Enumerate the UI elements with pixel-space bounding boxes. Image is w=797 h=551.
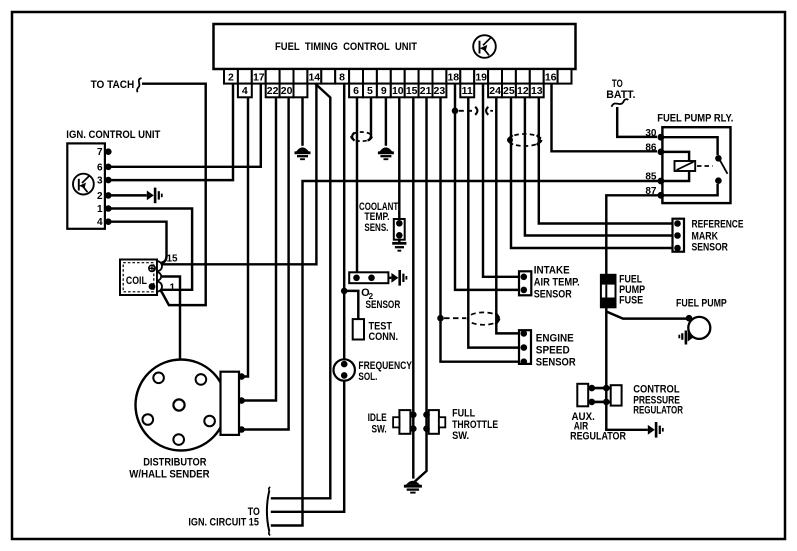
svg-text:7: 7 — [97, 147, 103, 158]
svg-text:W/HALL SENDER: W/HALL SENDER — [129, 469, 209, 481]
svg-text:22: 22 — [267, 85, 279, 97]
svg-text:SPEED: SPEED — [536, 345, 570, 357]
svg-text:25: 25 — [503, 85, 515, 97]
svg-text:DISTRIBUTOR: DISTRIBUTOR — [143, 457, 206, 469]
svg-text:THROTTLE: THROTTLE — [452, 419, 498, 431]
svg-text:FUSE: FUSE — [619, 295, 643, 307]
svg-text:3: 3 — [97, 176, 103, 187]
svg-text:23: 23 — [434, 85, 446, 97]
svg-text:21: 21 — [420, 85, 432, 97]
svg-text:30: 30 — [645, 128, 657, 139]
svg-text:85: 85 — [645, 172, 657, 183]
svg-text:4: 4 — [97, 217, 103, 228]
svg-text:BATT.: BATT. — [606, 89, 635, 101]
svg-text:REGULATOR: REGULATOR — [570, 431, 626, 443]
svg-text:1: 1 — [170, 283, 176, 294]
svg-text:6: 6 — [97, 162, 103, 173]
svg-text:87: 87 — [645, 186, 657, 197]
svg-text:20: 20 — [281, 85, 293, 97]
svg-text:15: 15 — [406, 85, 418, 97]
svg-text:AIR TEMP.: AIR TEMP. — [534, 277, 580, 289]
svg-text:REFERENCE: REFERENCE — [692, 219, 744, 231]
svg-text:SENSOR: SENSOR — [692, 242, 728, 254]
svg-text:FUEL PUMP RLY.: FUEL PUMP RLY. — [657, 113, 733, 125]
svg-text:1: 1 — [97, 204, 103, 215]
svg-text:SENSOR: SENSOR — [536, 357, 576, 369]
svg-text:INTAKE: INTAKE — [534, 265, 570, 277]
svg-text:IGN. CONTROL UNIT: IGN. CONTROL UNIT — [66, 129, 160, 141]
svg-text:2: 2 — [228, 71, 234, 83]
svg-text:COIL: COIL — [126, 275, 147, 287]
svg-text:2: 2 — [97, 191, 103, 202]
svg-text:11: 11 — [462, 85, 473, 97]
svg-text:12: 12 — [517, 85, 529, 97]
svg-text:REGULATOR: REGULATOR — [633, 405, 683, 417]
svg-text:SOL.: SOL. — [358, 371, 377, 383]
svg-text:SW.: SW. — [452, 430, 469, 442]
svg-text:18: 18 — [447, 71, 459, 83]
svg-text:FUEL PUMP: FUEL PUMP — [676, 298, 727, 310]
svg-text:4: 4 — [242, 85, 248, 97]
svg-text:24: 24 — [489, 85, 501, 97]
svg-text:SENS.: SENS. — [364, 222, 388, 234]
svg-text:ENGINE: ENGINE — [536, 333, 574, 345]
svg-text:CONN.: CONN. — [369, 331, 399, 343]
svg-text:17: 17 — [253, 71, 265, 83]
svg-text:10: 10 — [392, 85, 404, 97]
svg-text:16: 16 — [545, 71, 557, 83]
svg-text:FULL: FULL — [452, 408, 475, 420]
svg-text:IGN. CIRCUIT 15: IGN. CIRCUIT 15 — [188, 517, 259, 529]
svg-text:SW.: SW. — [372, 424, 387, 436]
svg-text:5: 5 — [367, 85, 373, 97]
svg-text:9: 9 — [381, 85, 387, 97]
svg-text:IDLE: IDLE — [368, 412, 387, 424]
svg-text:FUEL TIMING CONTROL UNIT: FUEL TIMING CONTROL UNIT — [275, 41, 417, 53]
svg-text:SENSOR: SENSOR — [534, 289, 572, 301]
svg-text:6: 6 — [353, 85, 359, 97]
svg-text:8: 8 — [339, 71, 345, 83]
svg-text:14: 14 — [308, 71, 320, 83]
svg-text:SENSOR: SENSOR — [366, 299, 401, 311]
svg-text:13: 13 — [531, 85, 543, 97]
svg-text:19: 19 — [475, 71, 487, 83]
svg-text:15: 15 — [167, 254, 179, 265]
svg-text:TO TACH: TO TACH — [91, 79, 135, 91]
svg-text:86: 86 — [645, 143, 657, 154]
